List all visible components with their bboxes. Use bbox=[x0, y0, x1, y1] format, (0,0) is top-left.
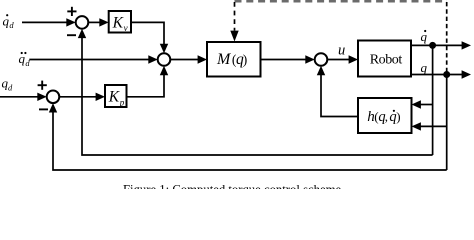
wire Kp to summing junction S3 (corner at x=164) bbox=[127, 66, 169, 97]
node label q_ddot_d (desired acceleration input) bbox=[19, 51, 31, 68]
svg-text:q: q bbox=[421, 29, 428, 44]
svg-text:K: K bbox=[112, 14, 124, 31]
wire Robot q_dot output bbox=[411, 41, 471, 49]
svg-text:Robot: Robot bbox=[370, 53, 403, 68]
junction dot on q line bbox=[443, 71, 450, 78]
wire q_dot feedback to S1 (bottom run and left riser) bbox=[78, 29, 433, 155]
summing junction S3 (central) bbox=[158, 53, 171, 66]
node label q_d (desired position input) bbox=[2, 76, 14, 93]
wire q_dot feedback riser (down right side) bbox=[432, 45, 434, 155]
wire S2 to block Kp bbox=[59, 93, 105, 101]
plus sign at S2 bbox=[38, 81, 47, 90]
wire q feedback riser (down right side) bbox=[446, 75, 448, 171]
dashed wire q to M(q): left vertical drop into M(q) bbox=[230, 2, 238, 42]
node label q_dot (measured velocity) bbox=[421, 29, 428, 44]
wire h output to summing junction S4 bbox=[317, 66, 358, 117]
block Kp bbox=[105, 85, 127, 108]
junction dot on q_dot line bbox=[429, 42, 436, 49]
svg-text:,: , bbox=[385, 109, 388, 124]
dashed wire q to M(q): top horizontal run (gray) bbox=[235, 0, 448, 2]
wire S1 to block Kv bbox=[88, 18, 108, 26]
svg-text:u: u bbox=[338, 42, 345, 58]
wire M(q) to summing junction S4 bbox=[261, 55, 315, 63]
summing junction S4 (torque node) bbox=[315, 53, 328, 66]
svg-text:M: M bbox=[216, 51, 232, 68]
minus sign at S2 bbox=[39, 108, 48, 110]
svg-text:): ) bbox=[243, 52, 248, 67]
wire Kv to summing junction S3 (corner at x=164) bbox=[131, 22, 168, 53]
block M(q) bbox=[207, 42, 261, 77]
svg-text:v: v bbox=[124, 23, 128, 33]
plus sign at S1 bbox=[67, 7, 76, 16]
summing junction S2 bbox=[47, 91, 60, 104]
wire S4 to block Robot bbox=[327, 55, 358, 63]
wire q_ddot_d input to summing junction S3 bbox=[29, 55, 157, 63]
minus sign at S1 bbox=[67, 34, 76, 36]
wire q branch into block h bbox=[412, 122, 447, 130]
node label q_dot_d (desired velocity input) bbox=[3, 14, 15, 31]
wire q feedback to S2 (bottom run and left riser) bbox=[49, 103, 447, 170]
block h(q,q_dot) bbox=[358, 98, 412, 133]
svg-text:q: q bbox=[421, 60, 428, 75]
wire q_d input to summing junction S2 bbox=[0, 93, 47, 101]
svg-text:p: p bbox=[119, 98, 125, 108]
summing junction S1 bbox=[76, 16, 89, 29]
dashed wire q to M(q): right vertical from q junction dot bbox=[446, 2, 448, 72]
wire q_dot branch into block h bbox=[412, 100, 433, 108]
svg-text:d: d bbox=[9, 20, 14, 30]
wire Robot q output bbox=[411, 70, 471, 78]
wire q_dot_d input to summing junction S1 bbox=[22, 18, 76, 26]
wire S3 to block M(q) bbox=[170, 55, 207, 63]
svg-text:): ) bbox=[396, 109, 400, 124]
svg-text:K: K bbox=[108, 89, 120, 106]
svg-text:Figure 1: Computed torque cont: Figure 1: Computed torque control scheme bbox=[123, 183, 341, 190]
block Kv bbox=[109, 11, 131, 33]
block Robot bbox=[358, 41, 411, 77]
